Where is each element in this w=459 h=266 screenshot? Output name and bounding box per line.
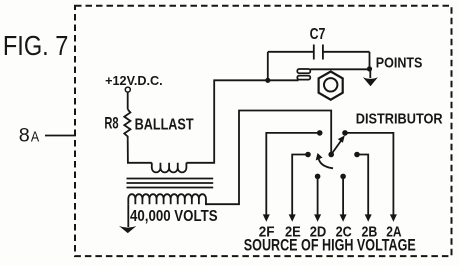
svg-text:POINTS: POINTS xyxy=(376,56,423,72)
wire points to C7 right junction xyxy=(310,68,369,70)
distributor contact 2C (bottom-right) xyxy=(340,174,346,180)
svg-text:C7: C7 xyxy=(310,26,326,43)
rotor arm arrow xyxy=(331,135,345,154)
terminal arrow 2E xyxy=(289,214,296,221)
terminal arrow 2D xyxy=(314,214,321,221)
ground arrow below secondary xyxy=(119,226,136,233)
svg-text:A: A xyxy=(31,129,39,145)
wire terminal to resistor xyxy=(127,92,129,109)
distributor contact 2F (top-left) xyxy=(317,130,323,136)
wire contact to terminal 2D xyxy=(317,176,319,215)
svg-text:40,000 VOLTS: 40,000 VOLTS xyxy=(130,208,218,225)
distributor contact 2D (bottom-left) xyxy=(315,174,321,180)
wire R8 to primary winding xyxy=(128,140,152,163)
terminal arrow 2A xyxy=(390,214,397,221)
terminal arrow 2C xyxy=(340,214,347,221)
svg-text:DISTRIBUTOR: DISTRIBUTOR xyxy=(356,111,443,127)
terminal arrow 2B xyxy=(365,214,372,221)
svg-text:BALLAST: BALLAST xyxy=(135,117,194,134)
dashed enclosure border (distributor housing) xyxy=(75,6,452,256)
cam hexagon xyxy=(319,72,343,100)
cam shaft circle xyxy=(324,78,337,91)
node: C7 right junction dot xyxy=(367,66,372,71)
rotation direction arc arrow xyxy=(316,153,333,168)
reference label 8A xyxy=(19,125,40,147)
wire contact to terminal 2F xyxy=(266,133,319,216)
svg-text:SOURCE OF HIGH VOLTAGE: SOURCE OF HIGH VOLTAGE xyxy=(244,237,416,255)
resistor R8 xyxy=(124,109,130,140)
svg-text:FIG. 7: FIG. 7 xyxy=(3,30,69,61)
wire primary to breaker points (right side, up and over) xyxy=(186,80,298,163)
wire secondary left lead down xyxy=(127,204,129,227)
supply terminal circle xyxy=(125,87,130,92)
breaker points fixed contact (bottom bar) xyxy=(297,76,310,80)
distributor contact 2E (mid-left) xyxy=(305,152,311,158)
breaker points moving contact (top bar) xyxy=(297,69,310,73)
wire contact to terminal 2A xyxy=(345,133,393,216)
wire contact to terminal 2B xyxy=(357,155,368,216)
wire secondary to rotor (high-voltage feed) xyxy=(205,111,331,205)
secondary winding xyxy=(128,194,206,204)
svg-text:8: 8 xyxy=(19,125,30,147)
rotor pivot dot xyxy=(328,152,334,158)
svg-text:R8: R8 xyxy=(104,115,118,133)
transformer core xyxy=(127,179,214,188)
svg-text:+12V.D.C.: +12V.D.C. xyxy=(105,73,163,88)
wire contact to terminal 2E xyxy=(292,155,308,216)
primary winding xyxy=(152,163,187,173)
POINTS arrow xyxy=(363,69,378,86)
distributor contact 2A (top-right) xyxy=(342,130,348,136)
terminal arrow 2F xyxy=(263,214,270,221)
wire contact to terminal 2C xyxy=(342,176,344,215)
capacitor C7 xyxy=(268,45,370,81)
leader line from 8A to enclosure xyxy=(45,135,76,137)
distributor contact 2B (mid-right) xyxy=(354,152,360,158)
node: C7 left junction dot xyxy=(265,78,270,83)
